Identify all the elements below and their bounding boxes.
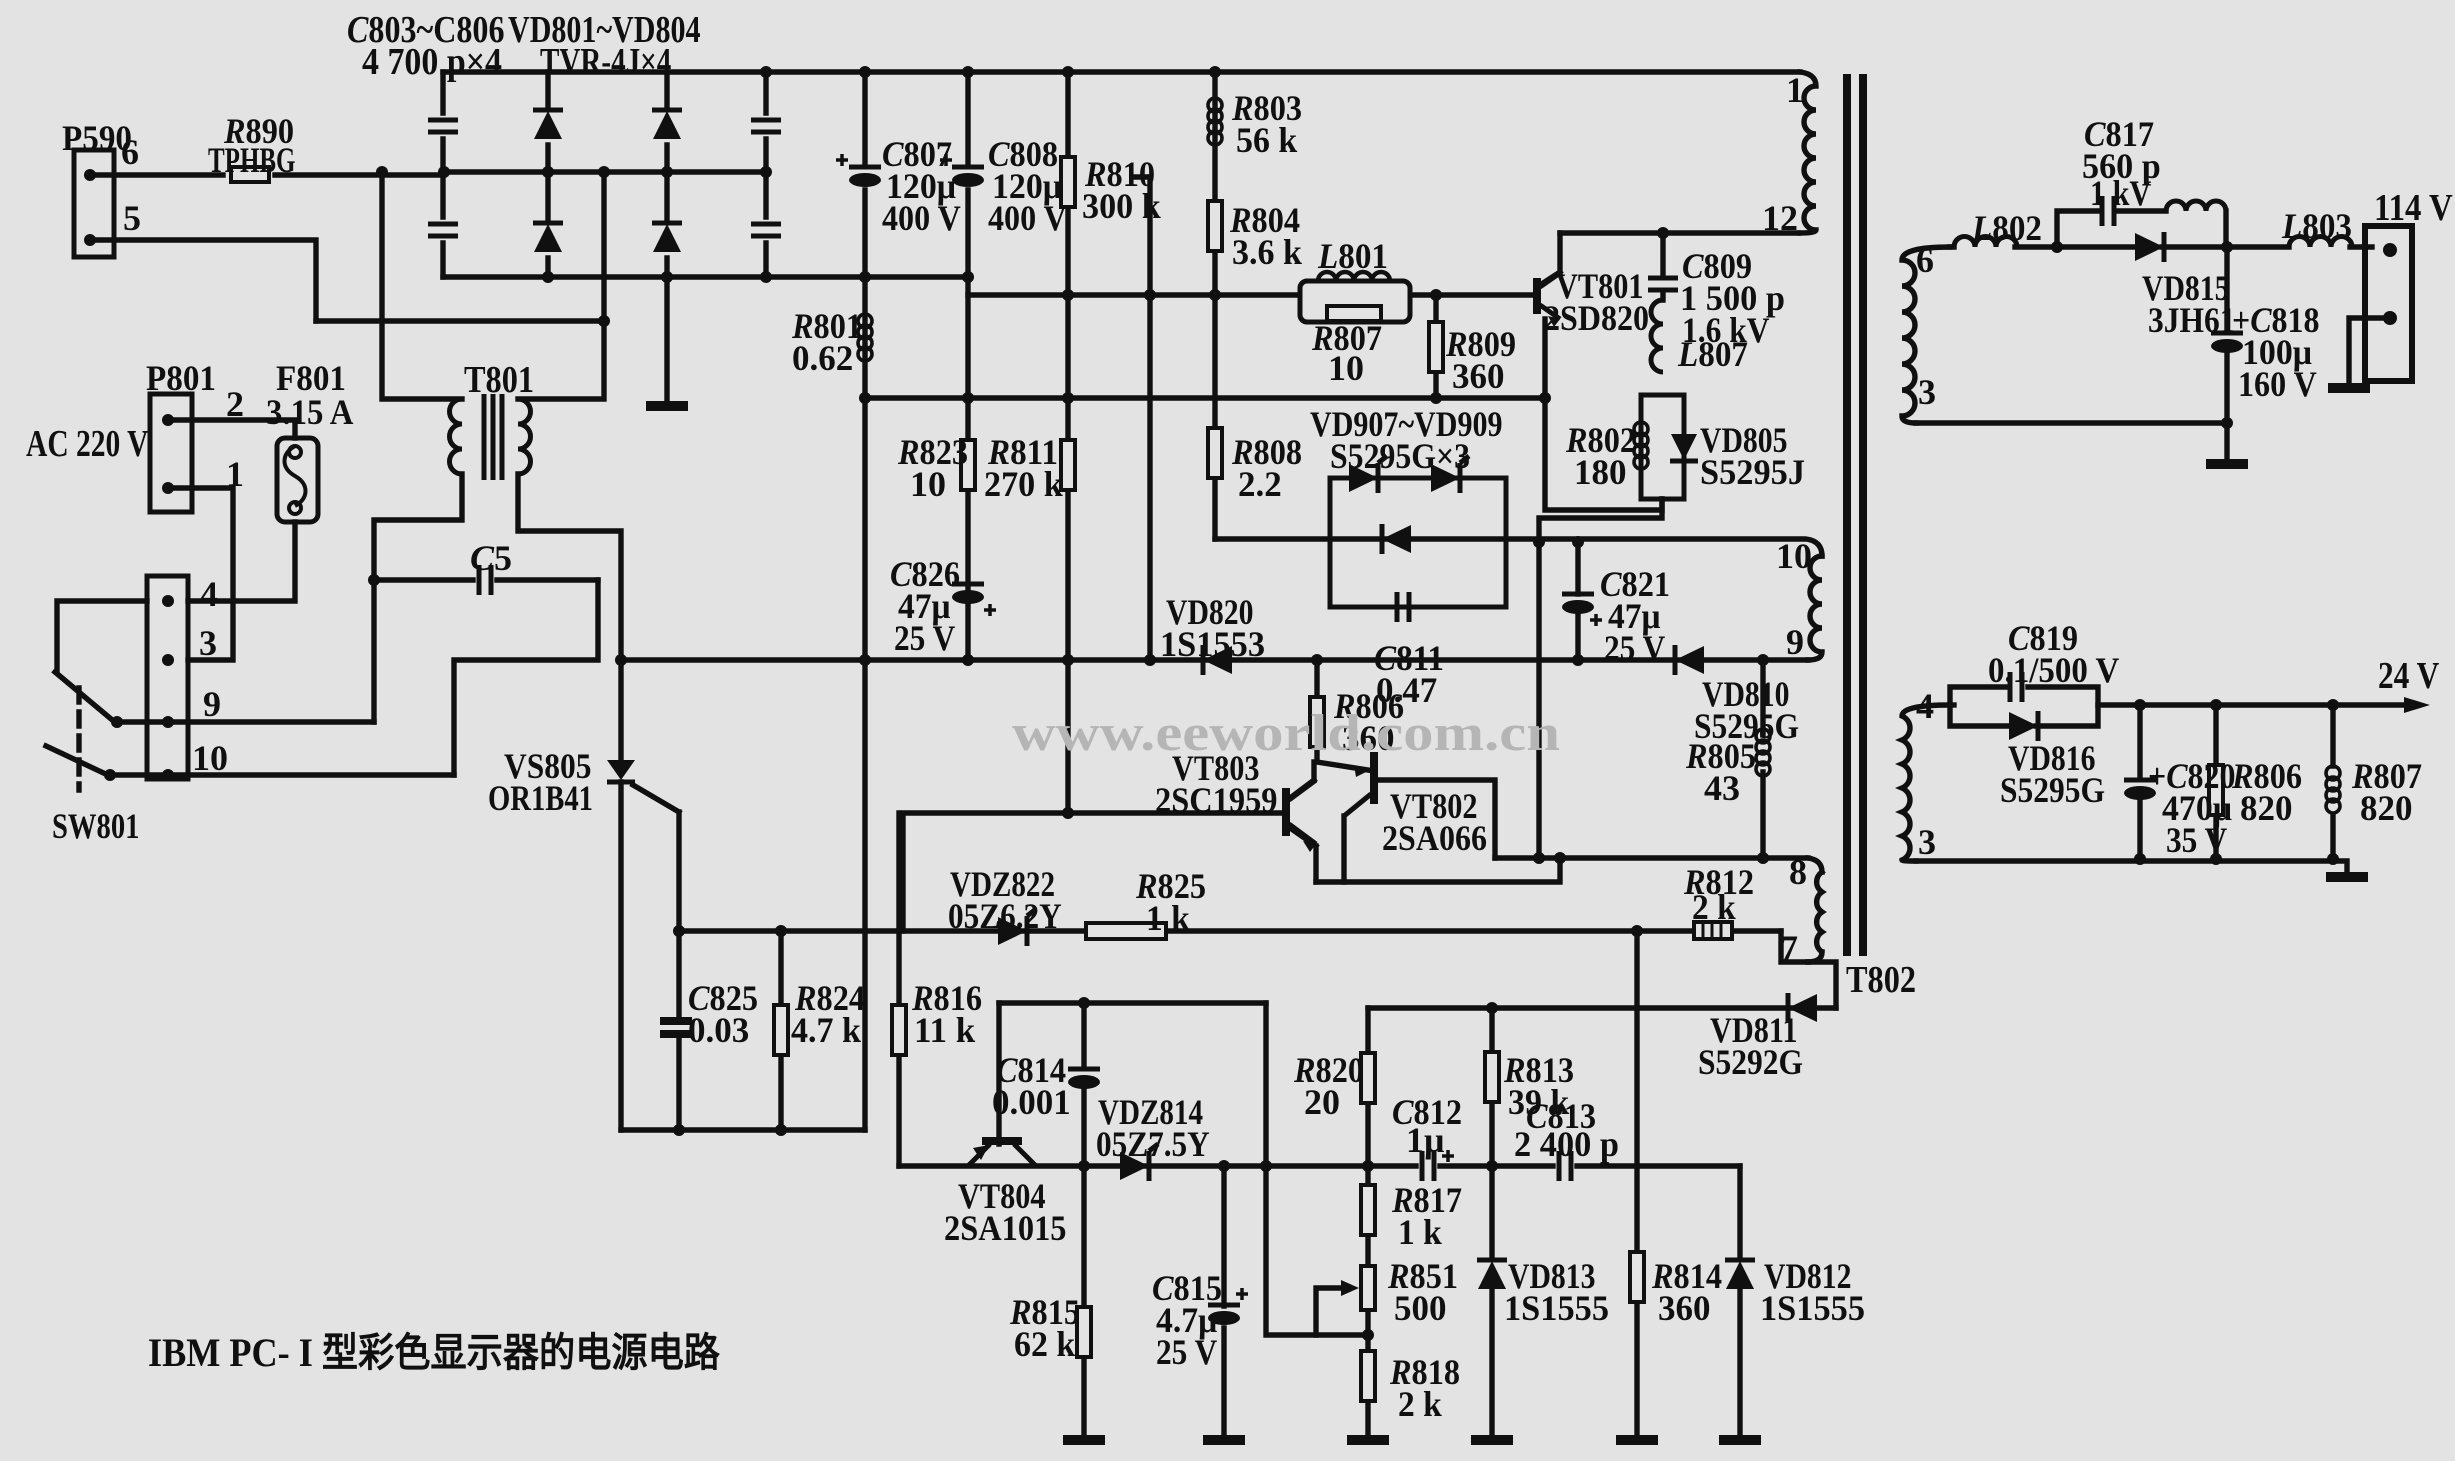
wire rail 1166 (VDZ814 row) <box>899 1163 1740 1168</box>
resistor R890 <box>231 167 269 182</box>
svg-text:43: 43 <box>1704 768 1740 808</box>
wire C821 column <box>1575 542 1580 660</box>
svg-text:S5295G: S5295G <box>2000 770 2105 810</box>
arrow 24V <box>2404 697 2430 713</box>
capacitor C803 <box>428 120 458 132</box>
capacitor C825 <box>660 1021 692 1034</box>
svg-text:12: 12 <box>1762 198 1798 238</box>
svg-text:9: 9 <box>1786 622 1804 662</box>
svg-text:0.03: 0.03 <box>688 1010 749 1050</box>
wire pin9 row <box>115 719 374 724</box>
transistor VT802 <box>1370 752 1378 804</box>
resistor R802 and diode VD805 box <box>1641 395 1684 499</box>
svg-text:24 V: 24 V <box>2378 655 2440 697</box>
winding T802 6-3 <box>1902 247 1950 423</box>
connector 114V output <box>2365 226 2412 381</box>
capacitor C818 <box>2211 333 2243 353</box>
svg-text:1μ: 1μ <box>1406 1120 1444 1160</box>
svg-text:62 k: 62 k <box>1014 1324 1075 1364</box>
svg-text:10: 10 <box>910 464 946 504</box>
wire rail 542 to winding pin10 <box>1215 539 1822 556</box>
diode VD820 <box>1203 645 1232 675</box>
wire main rail 660 <box>621 657 1808 662</box>
wire R809 drop <box>1433 295 1438 398</box>
resistor R825 <box>1086 923 1166 939</box>
diode VD801 <box>533 110 563 139</box>
wire rail 295 <box>968 292 1537 297</box>
resistor R814 <box>1630 1252 1644 1302</box>
fuse F801 <box>277 438 318 522</box>
resistor R823 <box>961 440 975 490</box>
svg-text:2: 2 <box>226 384 244 424</box>
wire winding8 link <box>1808 858 1822 872</box>
wire pin5 row to T801 column <box>316 318 604 323</box>
wire switch link dashed <box>76 688 81 790</box>
svg-text:05Z6.2Y: 05Z6.2Y <box>948 896 1062 936</box>
wire R802/VD805 box bottom link <box>1539 499 1662 858</box>
wire C814 box top <box>999 1000 1266 1005</box>
svg-text:360: 360 <box>1658 1288 1711 1328</box>
wire VD811 row <box>1368 1005 1836 1010</box>
transistor VT803 <box>1282 788 1290 836</box>
winding T802 1-12 <box>1800 72 1816 233</box>
wire C807 column <box>862 72 867 1130</box>
capacitor C809 <box>1648 278 1678 290</box>
svg-text:3.15 A: 3.15 A <box>266 392 354 432</box>
resistor R809 <box>1429 322 1443 372</box>
resistor R812 (striped) <box>1694 922 1732 939</box>
svg-text:L802: L802 <box>1971 208 2042 248</box>
capacitor C804 <box>428 224 458 236</box>
svg-text:05Z7.5Y: 05Z7.5Y <box>1096 1124 1210 1164</box>
svg-text:3: 3 <box>199 623 217 663</box>
svg-text:1 kV: 1 kV <box>2090 173 2151 213</box>
wire plug pin4 to switch <box>57 601 147 672</box>
winding T802 10-9 <box>1808 556 1822 660</box>
plus C815 <box>1236 1288 1248 1300</box>
svg-text:2SC1959: 2SC1959 <box>1155 780 1278 820</box>
resistor R805 (coil) <box>1756 729 1770 776</box>
diode VD803 <box>652 110 682 139</box>
svg-text:T801: T801 <box>464 359 534 401</box>
svg-text:270 k: 270 k <box>984 464 1063 504</box>
svg-text:10: 10 <box>1776 536 1812 576</box>
wire P801 pin1 down to plug pin3 <box>168 488 233 660</box>
wire T801 secondary top to mid rail <box>518 172 604 399</box>
capacitor C5 <box>479 565 491 595</box>
resistor R803 (coil) <box>1208 98 1222 145</box>
resistor R820 <box>1361 1053 1375 1103</box>
resistor R824 <box>774 1005 788 1055</box>
svg-text:8: 8 <box>1789 852 1807 892</box>
wire R813 column <box>1489 1008 1494 1436</box>
winding T802 4-3 (24V) <box>1902 705 1950 861</box>
capacitor C826 <box>952 584 984 604</box>
svg-text:OR1B41: OR1B41 <box>488 778 593 818</box>
svg-text:300 k: 300 k <box>1082 186 1161 226</box>
resistor R802 (coil) <box>1634 422 1648 469</box>
wire T801 primary top to mid rail <box>382 172 462 399</box>
node VD803/VD804 column <box>664 72 669 277</box>
capacitor C806 <box>751 224 781 236</box>
svg-text:2 400 p: 2 400 p <box>1514 1124 1619 1164</box>
ground VD813 <box>1471 1439 1513 1441</box>
wire R806b column <box>2213 705 2218 859</box>
switch SW801 contacts <box>111 716 123 728</box>
wire sense column <box>1147 177 1152 660</box>
resistor R815 <box>1077 1307 1091 1357</box>
wire VT801 emitter drop <box>1545 319 1662 510</box>
inductor L802 <box>1954 237 2017 248</box>
ground R815 <box>1063 1439 1105 1441</box>
svg-text:IBM PC- I 型彩色显示器的电源电路: IBM PC- I 型彩色显示器的电源电路 <box>148 1330 721 1375</box>
svg-text:TPHBG: TPHBG <box>208 140 296 180</box>
wire R807b column <box>2330 705 2335 859</box>
svg-text:1 k: 1 k <box>1398 1212 1442 1252</box>
wire R820 chain column <box>1365 1008 1370 1436</box>
svg-text:4.7 k: 4.7 k <box>791 1010 861 1050</box>
resistor R807 24V (coil) <box>2326 766 2340 813</box>
diode VD804 <box>652 223 682 252</box>
wire bridge bottom rail <box>443 274 968 279</box>
resistor R801 (coil) <box>858 314 872 361</box>
ground VD812 <box>1719 1439 1761 1441</box>
diode VD815 <box>2135 232 2164 262</box>
wire switch blade a <box>55 672 117 724</box>
wire 24V rail <box>2098 702 2404 707</box>
diode VD909 <box>1382 524 1411 554</box>
svg-text:P801: P801 <box>146 358 216 398</box>
svg-text:25 V: 25 V <box>1604 628 1665 668</box>
wire F801 bottom to plug pin4 <box>188 522 295 601</box>
svg-text:2SA1015: 2SA1015 <box>944 1208 1067 1248</box>
svg-text:400 V: 400 V <box>882 198 961 238</box>
wire left box bottom rail <box>621 1127 865 1132</box>
svg-text:C5: C5 <box>470 538 512 578</box>
wire R824 column <box>778 931 783 1130</box>
svg-text:1: 1 <box>1786 70 1804 110</box>
svg-text:1S1553: 1S1553 <box>1160 624 1265 664</box>
wire P590 pin6 to R890 <box>90 172 223 177</box>
wire R803/R804/R808 column <box>1212 72 1217 539</box>
ground R814 <box>1616 1439 1658 1441</box>
wire VS805 gate <box>633 785 679 1018</box>
wire VT802 base drop <box>1376 780 1495 858</box>
wire VD812 lower column <box>1737 1290 1742 1436</box>
svg-text:1S1555: 1S1555 <box>1504 1288 1609 1328</box>
svg-text:S5292G: S5292G <box>1698 1042 1803 1082</box>
diode VD816 <box>2009 711 2038 741</box>
wire T801 primary bottom to C5/pin9 <box>374 474 462 722</box>
svg-text:20: 20 <box>1304 1082 1340 1122</box>
wire VS805 column <box>618 660 623 1130</box>
capacitor C812 <box>1422 1151 1434 1181</box>
connector P801 <box>150 394 192 512</box>
svg-text:AC 220 V: AC 220 V <box>26 423 149 465</box>
wire C813 right drop to VD812 <box>1737 1166 1742 1258</box>
svg-text:S5295G×3: S5295G×3 <box>1330 436 1470 476</box>
diode VD811 <box>1788 993 1817 1023</box>
svg-text:3JH61: 3JH61 <box>2148 300 2236 340</box>
diode VD810 <box>1675 645 1704 675</box>
resistor R808 <box>1208 428 1222 478</box>
svg-text:T802: T802 <box>1846 959 1916 1001</box>
ground 114V return <box>2328 387 2370 389</box>
resistor R806 24V <box>2209 765 2223 815</box>
resistor R806 <box>1310 697 1324 747</box>
diode VD805 <box>1670 434 1698 461</box>
wire VDZ822 rail <box>679 928 1781 933</box>
svg-text:2 k: 2 k <box>1398 1384 1442 1424</box>
resistor R813 <box>1485 1052 1499 1102</box>
transformer T801 core <box>484 394 502 480</box>
svg-text:www.eeworld.com.cn: www.eeworld.com.cn <box>1012 705 1560 762</box>
svg-text:160 V: 160 V <box>2238 364 2317 404</box>
svg-text:25 V: 25 V <box>894 618 955 658</box>
wire VT802 collector down <box>1341 816 1346 882</box>
connector SW801 plug <box>147 576 188 779</box>
wire R815 column <box>1081 1166 1086 1436</box>
node C805 column <box>763 72 768 277</box>
wire C820 column <box>2137 705 2142 859</box>
wire pin10 row <box>108 772 454 777</box>
capacitor C811 <box>1397 592 1409 622</box>
resistor R810 <box>1061 157 1075 207</box>
wire winding7 link <box>1781 931 1822 962</box>
wire VT803 base rail <box>903 813 1284 931</box>
svg-text:9: 9 <box>203 684 221 724</box>
transformer T801 secondary coil <box>518 399 531 474</box>
svg-text:820: 820 <box>2240 788 2293 828</box>
wire T801 secondary bottom to hot rail <box>518 474 621 660</box>
capacitor C814 <box>1068 1069 1100 1089</box>
svg-text:5: 5 <box>123 198 141 238</box>
wire C809/L807 column <box>1660 233 1665 300</box>
svg-text:3.6 k: 3.6 k <box>1232 232 1302 272</box>
svg-text:56 k: 56 k <box>1236 120 1297 160</box>
wire R816 column <box>896 813 901 1166</box>
svg-text:11 k: 11 k <box>914 1010 975 1050</box>
winding T802 8-7 <box>1808 872 1822 962</box>
diode VD907 <box>1349 456 1387 493</box>
wire C814 column <box>1081 1003 1086 1166</box>
svg-text:0.62: 0.62 <box>792 338 853 378</box>
diode VD813 <box>1477 1260 1507 1289</box>
svg-text:25 V: 25 V <box>1156 1332 1217 1372</box>
wire C819 box <box>1950 687 2098 726</box>
wire rail 858 <box>1495 855 1808 860</box>
svg-text:1 k: 1 k <box>1146 898 1190 938</box>
connector P590 <box>74 150 114 257</box>
inductor L801 with resistor R807 parallel box <box>1300 281 1410 322</box>
wire P590 pin5 run <box>90 240 316 321</box>
plus C807 <box>836 154 848 166</box>
wire 24V bottom rail <box>1916 861 2347 873</box>
wire 114V bottom return <box>1916 420 2227 425</box>
capacitor C820 <box>2124 780 2156 800</box>
wire R814 column <box>1634 931 1639 1436</box>
diode network VD907~VD909 box <box>1330 478 1506 607</box>
svg-text:500: 500 <box>1394 1288 1447 1328</box>
diode VD908 <box>1431 456 1469 493</box>
core T802 <box>1847 74 1863 956</box>
inductor L807 <box>1651 300 1663 372</box>
svg-text:4 700 p×4: 4 700 p×4 <box>362 41 502 83</box>
transistor VT801 <box>1533 278 1541 314</box>
svg-text:10: 10 <box>192 738 228 778</box>
svg-text:10: 10 <box>1328 348 1364 388</box>
node C803 column <box>440 72 445 277</box>
capacitor C819 <box>2010 672 2022 702</box>
wire pin4 to C819 box <box>1950 702 1954 707</box>
plus C812 <box>1442 1150 1454 1162</box>
svg-text:L803: L803 <box>2281 206 2352 246</box>
wire stub to sense column <box>1133 174 1150 179</box>
svg-text:1S1555: 1S1555 <box>1760 1288 1865 1328</box>
wire emitter joint box <box>1316 858 1560 882</box>
wire C818 column <box>2224 247 2229 423</box>
svg-text:35 V: 35 V <box>2166 820 2227 860</box>
thyristor VS805 <box>607 760 635 780</box>
capacitor C808 <box>952 167 984 187</box>
diode VD812 <box>1725 1260 1755 1289</box>
svg-text:0.001: 0.001 <box>992 1082 1071 1122</box>
svg-text:820: 820 <box>2360 788 2413 828</box>
wire C5 right down to pin10 <box>454 580 598 775</box>
node VD801/VD802 column <box>545 72 550 277</box>
svg-text:6: 6 <box>121 132 139 172</box>
wire rail 398 <box>865 395 1545 400</box>
wire top bus <box>443 69 1800 74</box>
svg-text:SW801: SW801 <box>52 806 140 846</box>
wire R890 to bridge mid rail <box>275 172 443 177</box>
wire C818 ground stub <box>2224 423 2229 460</box>
wire bridge mid rail <box>443 169 766 174</box>
wire R810/R811 column <box>1065 72 1070 813</box>
wire VD column to ground <box>664 277 669 402</box>
resistor R818 <box>1361 1351 1375 1401</box>
capacitor C815 <box>1208 1305 1240 1325</box>
wire wiper arrow run <box>1316 1288 1342 1335</box>
svg-text:S5295J: S5295J <box>1700 452 1805 492</box>
resistor R816 <box>892 1005 906 1055</box>
svg-text:L807: L807 <box>1677 334 1748 374</box>
wire C814 box left / VT804 base <box>996 1003 1001 1144</box>
svg-text:4: 4 <box>200 574 218 614</box>
wire VD815 run <box>2057 244 2372 249</box>
transformer T801 primary coil <box>450 399 463 474</box>
wire C5 line <box>374 577 598 582</box>
ground C815 <box>1203 1439 1245 1441</box>
ground R818 <box>1347 1439 1389 1441</box>
resistor R804 <box>1208 201 1222 251</box>
svg-text:2SA066: 2SA066 <box>1382 818 1487 858</box>
svg-text:6: 6 <box>1916 240 1934 280</box>
svg-text:3: 3 <box>1918 372 1936 412</box>
wire R805 column <box>1760 660 1765 858</box>
svg-text:2.2: 2.2 <box>1238 464 1282 504</box>
wire L802 line <box>1950 244 2057 249</box>
capacitor C813 <box>1559 1151 1571 1181</box>
wire C815 column <box>1221 1166 1226 1436</box>
svg-text:0.1/500 V: 0.1/500 V <box>1988 650 2119 690</box>
plus C821 <box>1590 614 1602 626</box>
wire VD811 to pin7 <box>1808 962 1836 1008</box>
plus C808 <box>940 154 952 166</box>
wire C817 loop <box>2057 211 2226 247</box>
inductor L803 <box>2289 237 2352 248</box>
inductor on C817 loop <box>2166 201 2226 211</box>
svg-text:1: 1 <box>226 454 244 494</box>
svg-text:TVR-4J×4: TVR-4J×4 <box>540 41 671 83</box>
svg-text:4: 4 <box>1916 686 1934 726</box>
svg-text:114 V: 114 V <box>2374 187 2453 229</box>
wire VT803 collector up <box>1290 762 1314 798</box>
wire wiper column <box>1266 1003 1368 1335</box>
wire C825 column lower <box>676 1040 681 1130</box>
wire switch blade b <box>46 746 110 776</box>
svg-text:7: 7 <box>1780 928 1798 968</box>
potentiometer R851 <box>1361 1266 1375 1310</box>
wire VT801 collector <box>1540 233 1560 285</box>
capacitor C807 <box>849 167 881 187</box>
svg-text:L801: L801 <box>1317 236 1388 276</box>
plus C826 <box>984 604 996 616</box>
wire C808 column <box>965 72 970 660</box>
diode VD802 <box>533 223 563 252</box>
zener VDZ814 <box>1120 1144 1158 1181</box>
ground 24V rail <box>2326 876 2368 878</box>
wire VT803 emitter down <box>1290 828 1316 882</box>
zener VDZ822 <box>998 909 1036 946</box>
svg-text:3: 3 <box>1918 822 1936 862</box>
wire R806 column <box>1317 660 1368 770</box>
capacitor C805 <box>751 120 781 132</box>
transistor VT804 <box>982 1137 1022 1145</box>
resistor R817 <box>1361 1185 1375 1235</box>
svg-text:360: 360 <box>1452 356 1505 396</box>
svg-text:2SD820: 2SD820 <box>1544 298 1649 338</box>
ground under bridge <box>646 405 688 407</box>
svg-text:400 V: 400 V <box>988 198 1067 238</box>
wire collector line to T802 pin12 <box>1560 230 1798 235</box>
svg-text:180: 180 <box>1574 452 1627 492</box>
capacitor C817 <box>2102 196 2114 226</box>
resistor R811 <box>1061 440 1075 490</box>
ground C818 <box>2206 463 2248 465</box>
svg-text:2 k: 2 k <box>1692 887 1736 927</box>
wire 114V pin2 return <box>2349 318 2390 384</box>
wire P801 pin2 to F801 <box>168 420 295 438</box>
capacitor C821 <box>1562 594 1594 614</box>
